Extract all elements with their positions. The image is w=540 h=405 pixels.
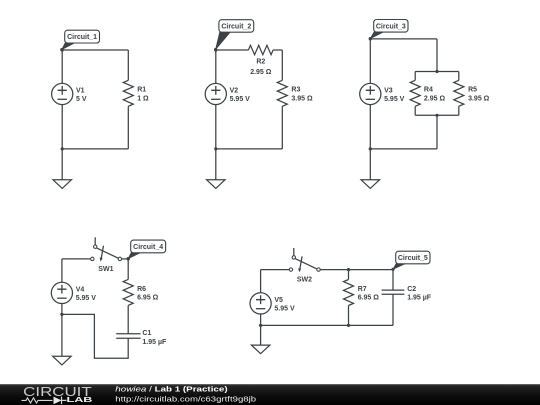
svg-text:R4: R4: [424, 87, 433, 94]
wire top circuit 3: [370, 38, 437, 40]
callout Circuit_2: [216, 31, 232, 50]
svg-text:3.95 Ω: 3.95 Ω: [468, 95, 490, 102]
svg-text:R2: R2: [256, 59, 265, 66]
svg-text:6.95 Ω: 6.95 Ω: [137, 295, 159, 302]
callout Circuit_5: [393, 262, 408, 269]
svg-text:V4: V4: [76, 286, 85, 293]
callout Circuit_1: [62, 42, 77, 50]
wire V3 bottom lead: [369, 105, 371, 149]
resistor R4 2.95 Ohm: [414, 72, 416, 81]
node top-left circuit 3: [369, 37, 372, 40]
resistor R2 2.95 Ohm (horizontal): [248, 45, 273, 54]
wire parallel bottom bus: [415, 114, 459, 116]
svg-text:http://circuitlab.com/c63grtft: http://circuitlab.com/c63grtft9g8jb: [115, 395, 256, 404]
wire bottom circuit 1: [62, 148, 128, 150]
wire top-left circuit 2: [216, 49, 249, 51]
voltage source V3 5.95 V: [360, 83, 381, 104]
resistor R3 3.95 Ohm: [281, 50, 283, 80]
ground circuit 2: [215, 149, 217, 180]
svg-text:2.95 Ω: 2.95 Ω: [424, 95, 446, 102]
callout Circuit_3: [370, 31, 386, 39]
node top-right circuit 4: [127, 257, 130, 260]
ground circuit 4: [61, 314, 63, 356]
callout Circuit_4: [128, 251, 143, 258]
svg-text:howiea / Lab 1 (Practice): howiea / Lab 1 (Practice): [115, 384, 228, 393]
ground circuit 1: [61, 149, 63, 180]
resistor R6 6.95 Ohm: [127, 259, 129, 280]
wire V2 bottom lead: [215, 105, 217, 149]
svg-text:5.95 V: 5.95 V: [274, 306, 295, 313]
svg-text:R5: R5: [468, 87, 477, 94]
svg-text:5.95 V: 5.95 V: [76, 295, 97, 302]
wire V5 top lead: [260, 270, 262, 293]
svg-text:V2: V2: [230, 87, 239, 94]
node parallel top circuit 3: [435, 70, 438, 73]
CircuitLab logo resistor zigzag and diode: [22, 398, 53, 403]
svg-text:SW2: SW2: [297, 277, 312, 284]
ground circuit 3: [369, 149, 371, 180]
wire top-left circuit 5: [261, 269, 290, 271]
resistor R7 6.95 Ohm: [348, 270, 350, 280]
svg-text:LAB: LAB: [67, 395, 93, 404]
svg-text:Circuit_1: Circuit_1: [67, 34, 97, 41]
wire bottom circuit 5: [261, 324, 393, 326]
capacitor C2 1.95 uF: [392, 270, 394, 291]
node R7 top circuit 5: [347, 268, 350, 271]
svg-text:R3: R3: [291, 87, 300, 94]
wire V3 top lead: [369, 39, 371, 84]
wire V4 top lead: [61, 259, 63, 282]
svg-text:R7: R7: [358, 286, 367, 293]
wire top circuit 1: [62, 49, 128, 51]
switch SW1: [94, 237, 96, 245]
svg-text:Circuit_3: Circuit_3: [376, 23, 406, 30]
ground circuit 5: [260, 325, 262, 345]
voltage source V1 5 V: [52, 83, 73, 104]
svg-text:2.95 Ω: 2.95 Ω: [250, 69, 272, 76]
wire bottom circuit 3: [370, 148, 437, 150]
voltage source V4 5.95 V: [51, 282, 72, 303]
wire V2 top lead: [215, 50, 217, 83]
svg-text:SW1: SW1: [98, 266, 113, 273]
svg-text:C1: C1: [142, 330, 151, 337]
wire bottom circuit 2: [216, 148, 282, 150]
svg-text:1.95 µF: 1.95 µF: [407, 295, 432, 302]
svg-text:5.95 V: 5.95 V: [230, 96, 251, 103]
voltage source V2 5.95 V: [205, 83, 226, 104]
node bottom-left circuit 4: [60, 313, 63, 316]
wire switch to node circuit 4: [122, 258, 129, 260]
svg-text:5.95 V: 5.95 V: [384, 96, 405, 103]
svg-text:R6: R6: [137, 286, 146, 293]
wire feed down to parallel pair: [436, 39, 438, 72]
svg-text:V3: V3: [384, 87, 393, 94]
node bottom circuit 3: [369, 147, 372, 150]
svg-text:R1: R1: [137, 87, 146, 94]
svg-text:Circuit_5: Circuit_5: [398, 255, 428, 262]
node parallel bottom circuit 3: [435, 114, 438, 117]
node bottom circuit 2: [214, 147, 217, 150]
node bottom-left circuit 5: [259, 324, 262, 327]
node bottom circuit 1: [61, 147, 64, 150]
wire V4 bottom lead: [61, 304, 63, 315]
voltage source V5 5.95 V: [250, 293, 271, 314]
svg-text:C2: C2: [407, 286, 416, 293]
wire feed down from parallel pair: [436, 115, 438, 149]
svg-text:1.95 µF: 1.95 µF: [142, 339, 167, 346]
wire switch to node circuit 5: [320, 269, 393, 271]
wire V5 bottom lead: [260, 314, 262, 325]
svg-text:V1: V1: [76, 87, 85, 94]
svg-text:Circuit_4: Circuit_4: [133, 244, 163, 251]
wire V1 bottom lead: [61, 105, 63, 149]
wire top-right circuit 2: [273, 49, 282, 51]
capacitor C1 1.95 uF: [116, 333, 140, 335]
wire top-left circuit 4: [62, 258, 91, 260]
wire C1 bottom return path: [62, 314, 128, 358]
wire parallel top bus: [415, 71, 459, 73]
svg-text:3.95 Ω: 3.95 Ω: [291, 95, 313, 102]
svg-text:V5: V5: [274, 297, 283, 304]
resistor R1 1 Ohm: [127, 50, 129, 80]
svg-text:Circuit_2: Circuit_2: [221, 24, 251, 31]
node top-left circuit 1: [61, 48, 64, 51]
resistor R5 3.95 Ohm: [458, 72, 460, 81]
svg-text:5 V: 5 V: [76, 96, 87, 103]
node R7 bottom circuit 5: [347, 324, 350, 327]
svg-text:6.95 Ω: 6.95 Ω: [358, 295, 380, 302]
wire V1 top lead: [61, 50, 63, 83]
node top-left circuit 2: [214, 48, 217, 51]
switch SW2: [293, 248, 295, 256]
svg-text:1 Ω: 1 Ω: [137, 95, 149, 102]
